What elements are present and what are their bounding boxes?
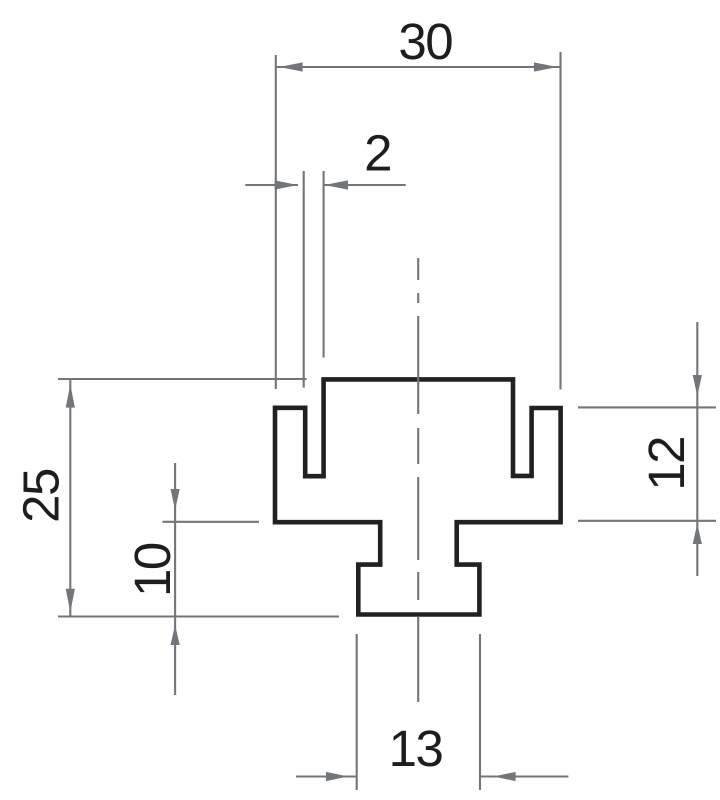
profile outline (T-slot cross-section) (275, 379, 561, 614)
dim 25: dimension line (69, 380, 71, 616)
dim 13: left tail line (296, 775, 357, 777)
dim 25: top arrowhead (66, 384, 75, 407)
dim 13: left arrowhead (outside, pointing right) (326, 772, 348, 781)
dim 12: bottom extension line (578, 520, 716, 522)
dim 25: bottom extension line (shared with dim 10) (58, 615, 339, 617)
dim 25: top extension line (58, 378, 307, 380)
centerline (dashed vertical axis) (417, 258, 419, 702)
dim 10: top arrowhead (outside, pointing down) (171, 489, 180, 510)
dim 2: left extension line (303, 171, 305, 388)
dim 12: top extension line (578, 406, 716, 408)
dim 2: right tail line (324, 184, 405, 186)
svg-text:2: 2 (364, 125, 391, 182)
dim 25: bottom arrowhead (66, 589, 75, 612)
svg-text:25: 25 (13, 469, 70, 523)
dim 30: right arrowhead (534, 62, 558, 71)
dim 13: right arrowhead (outside, pointing left) (493, 772, 515, 781)
dim 13: left extension line (356, 634, 358, 790)
dim 13: right extension line (479, 634, 481, 790)
dim 2: right arrowhead (outside, pointing left) (324, 180, 348, 189)
dim 12: dimension line (696, 322, 698, 576)
dim 30: right extension line (559, 52, 561, 390)
svg-text:13: 13 (389, 720, 443, 777)
dim 2: left tail line (245, 184, 298, 186)
dim 12: bottom arrowhead (outside, pointing up) (693, 524, 702, 544)
dim 30: dimension line (277, 66, 560, 68)
dim 30: left arrowhead (279, 62, 303, 71)
dim 2: left arrowhead (outside, pointing right) (275, 180, 298, 189)
dim 30: left extension line (275, 55, 277, 389)
dim 10: dimension line (174, 463, 176, 695)
dim 13: right tail line (481, 775, 569, 777)
svg-text:30: 30 (398, 13, 452, 70)
svg-text:12: 12 (638, 437, 695, 491)
dim 2: right extension line (323, 171, 325, 358)
svg-text:10: 10 (124, 543, 181, 597)
dim 12: top arrowhead (outside, pointing down) (693, 375, 702, 396)
dim 10: top extension line (163, 521, 260, 523)
dim 10: bottom arrowhead (outside, pointing up) (171, 625, 180, 645)
